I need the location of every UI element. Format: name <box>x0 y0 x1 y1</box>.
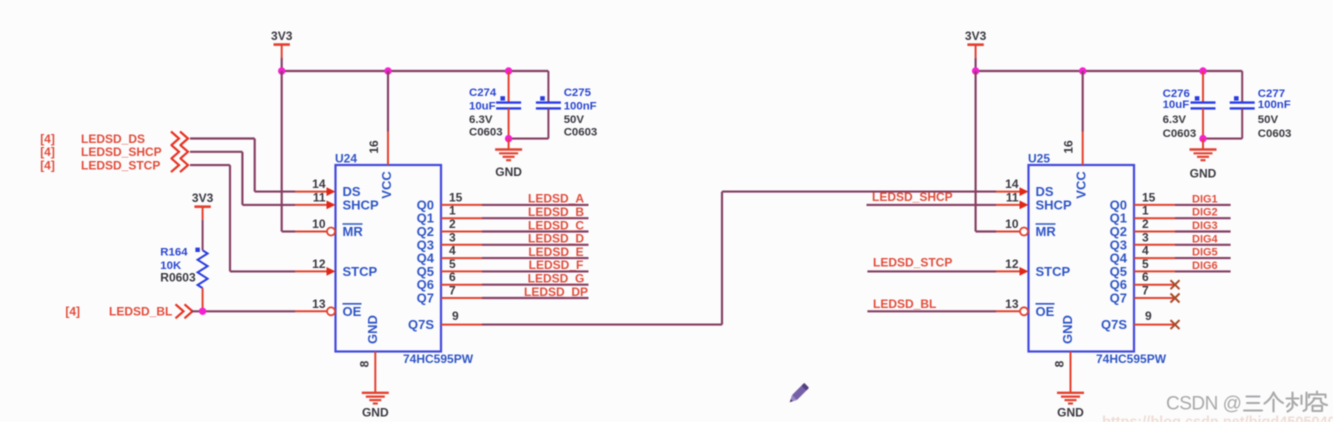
svg-text:C0603: C0603 <box>564 127 598 139</box>
pin 2 Q2 (U24) <box>417 217 482 239</box>
svg-text:MR: MR <box>343 224 364 239</box>
svg-text:6: 6 <box>1142 270 1149 284</box>
svg-text:C0603: C0603 <box>1258 128 1292 140</box>
designator U25 <box>1028 152 1050 166</box>
svg-text:LEDSD_SHCP: LEDSD_SHCP <box>81 145 162 159</box>
svg-text:GND: GND <box>1060 315 1075 344</box>
label C277 <box>1258 88 1285 100</box>
wire net DIG6 <box>1175 270 1231 272</box>
capacitor C274 10uF <box>496 71 521 139</box>
wire right cap bottoms join <box>1203 138 1242 140</box>
svg-text:16: 16 <box>367 140 381 154</box>
svg-text:LEDSD_DP: LEDSD_DP <box>524 285 588 299</box>
svg-text:GND: GND <box>365 315 380 344</box>
svg-text:1: 1 <box>449 204 456 218</box>
pin 16 VCC (U25) <box>1062 132 1089 199</box>
pin 6 Q6 (U24) <box>417 270 482 292</box>
label C276 <box>1163 88 1190 100</box>
svg-text:SHCP: SHCP <box>1036 197 1072 212</box>
wire net LEDSD_F <box>482 270 589 272</box>
svg-text:U24: U24 <box>335 152 357 166</box>
svg-text:C275: C275 <box>564 87 592 99</box>
value 10uF <box>469 100 496 112</box>
svg-text:12: 12 <box>312 257 326 271</box>
svg-text:SHCP: SHCP <box>343 197 379 212</box>
wire U24 Q7S to U25 DS <box>482 192 996 325</box>
svg-text:bttps://blog.csdn.net/bigd4505: bttps://blog.csdn.net/bigd45050402 <box>1102 415 1333 422</box>
junction at 3V3 left <box>278 67 285 74</box>
power symbol 3V3 (top left, feeds U24 rail) <box>271 29 293 58</box>
svg-text:LEDSD_C: LEDSD_C <box>528 218 584 232</box>
svg-text:LEDSD_STCP: LEDSD_STCP <box>81 158 160 172</box>
pin 7 Q7 (U24) <box>417 284 482 306</box>
svg-text:VCC: VCC <box>379 171 394 199</box>
junction at cap gnd node <box>505 135 512 142</box>
pin 9 Q7S (U24) <box>408 309 482 332</box>
pin 9 Q7S (U25) <box>1101 309 1175 332</box>
wire 3V3 to U25 pin 10 MR <box>976 71 996 232</box>
svg-text:8: 8 <box>1053 360 1067 367</box>
svg-text:12: 12 <box>1005 257 1019 271</box>
svg-text:[4]: [4] <box>40 132 55 146</box>
svg-text:7: 7 <box>449 284 456 298</box>
pin 10 MR inverted (U24) <box>295 217 363 239</box>
port [4] LEDSD_STCP <box>40 158 188 172</box>
svg-text:11: 11 <box>313 190 326 204</box>
pin 15 Q0 (U25) <box>1110 190 1175 212</box>
IC U24 74HC595PW body <box>336 165 442 352</box>
wire 3V3 stub to rail <box>281 58 283 71</box>
value 6.3V <box>469 114 493 126</box>
svg-text:CSDN @: CSDN @ <box>1166 394 1241 415</box>
pin 3 Q3 (U24) <box>417 230 482 252</box>
net label DIG3 <box>1192 220 1218 232</box>
pin 4 Q4 (U24) <box>417 244 482 266</box>
junction at U25 VCC branch <box>1079 67 1086 74</box>
svg-text:4: 4 <box>1142 244 1149 258</box>
svg-text:15: 15 <box>449 190 463 204</box>
svg-text:LEDSD_E: LEDSD_E <box>528 245 583 259</box>
svg-text:2: 2 <box>449 217 456 231</box>
no-connect X on U25 Q6 <box>1171 280 1180 289</box>
svg-text:4: 4 <box>449 244 456 258</box>
svg-text:OE: OE <box>1036 304 1055 319</box>
svg-text:Q7S: Q7S <box>408 317 434 332</box>
svg-text:Q7: Q7 <box>417 291 434 306</box>
svg-text:10: 10 <box>1005 217 1019 231</box>
label R164 <box>160 247 188 259</box>
value 50V (C277) <box>1258 114 1279 126</box>
value 6.3V (C276) <box>1163 114 1187 126</box>
svg-text:LEDSD_D: LEDSD_D <box>528 232 584 246</box>
pencil cursor icon <box>787 383 809 405</box>
svg-text:LEDSD_G: LEDSD_G <box>528 272 585 286</box>
svg-text:C0603: C0603 <box>1163 128 1197 140</box>
junction at right cap gnd node <box>1199 135 1206 142</box>
svg-text:C0603: C0603 <box>469 127 503 139</box>
net label DIG1 <box>1192 193 1218 205</box>
value 10uF (C276) <box>1163 99 1190 111</box>
svg-text:C274: C274 <box>469 87 497 99</box>
wire LEDSD_DS to U24 pin 14 <box>190 139 295 192</box>
pin 13 OE inverted (U25) <box>996 297 1055 319</box>
watermark CSDN @三个刺客 <box>1166 392 1327 415</box>
net label LEDSD_B <box>528 205 584 219</box>
svg-text:DIG5: DIG5 <box>1192 247 1218 259</box>
net label LEDSD_C <box>528 218 584 232</box>
junction at 3V3 right <box>972 67 979 74</box>
svg-text:[4]: [4] <box>65 305 80 319</box>
svg-text:VCC: VCC <box>1074 171 1089 199</box>
capacitor C275 100nF <box>536 71 561 139</box>
faint url watermark <box>1102 415 1333 422</box>
value C0603 (C276) <box>1163 128 1197 140</box>
svg-text:LEDSD_B: LEDSD_B <box>528 205 584 219</box>
wire net DIG5 <box>1175 257 1231 259</box>
svg-text:[4]: [4] <box>40 145 55 159</box>
svg-text:5: 5 <box>1142 257 1149 271</box>
wire net DIG3 <box>1175 230 1231 232</box>
pin 14 DS (U24) <box>295 177 361 199</box>
power symbol 3V3 (above R164) <box>192 191 214 220</box>
svg-text:74HC595PW: 74HC595PW <box>1096 352 1167 366</box>
svg-text:OE: OE <box>343 304 362 319</box>
no-connect X on U25 Q7 <box>1171 294 1180 303</box>
svg-text:5: 5 <box>449 257 456 271</box>
svg-text:GND: GND <box>362 406 389 420</box>
pin 7 Q7 (U25) <box>1110 284 1175 306</box>
svg-text:Q7S: Q7S <box>1101 317 1127 332</box>
svg-text:STCP: STCP <box>1036 264 1071 279</box>
value 100nF (C277) <box>1258 99 1291 111</box>
pin 5 Q5 (U25) <box>1110 257 1175 279</box>
svg-text:R164: R164 <box>160 247 188 259</box>
value 50V <box>564 114 585 126</box>
wire net LEDSD_G <box>482 284 589 286</box>
svg-text:3V3: 3V3 <box>192 191 214 205</box>
svg-text:Q7: Q7 <box>1110 291 1127 306</box>
svg-text:DIG2: DIG2 <box>1192 207 1218 219</box>
svg-text:100nF: 100nF <box>1258 99 1291 111</box>
value C0603 (C275) <box>564 127 598 139</box>
wire cap bottoms join <box>509 138 549 140</box>
svg-text:[4]: [4] <box>40 158 55 172</box>
pin 8 GND (U24) <box>357 315 380 393</box>
pin 2 Q2 (U25) <box>1110 217 1175 239</box>
pin 11 SHCP (U25) <box>996 190 1072 212</box>
pin 12 STCP (U24) <box>295 257 378 279</box>
port [4] LEDSD_BL <box>65 304 192 318</box>
net label LEDSD_STCP and wire to U25 pin 12 <box>867 256 996 272</box>
wire net LEDSD_D <box>482 244 589 246</box>
svg-text:100nF: 100nF <box>564 100 597 112</box>
wire LEDSD_BL to U24 pin 13 <box>192 310 296 312</box>
svg-text:16: 16 <box>1062 140 1076 154</box>
net label LEDSD_G <box>528 272 585 286</box>
value C0603 (C277) <box>1258 128 1292 140</box>
ground below C276/C277 <box>1190 139 1217 181</box>
net label LEDSD_F <box>529 258 584 272</box>
capacitor C277 100nF <box>1230 71 1255 139</box>
svg-text:DIG6: DIG6 <box>1192 260 1218 272</box>
port [4] LEDSD_SHCP <box>40 145 188 159</box>
wire LEDSD_SHCP to U24 pin 11 <box>190 152 295 205</box>
net label DIG5 <box>1192 247 1218 259</box>
svg-text:74HC595PW: 74HC595PW <box>403 352 474 366</box>
pin 16 VCC (U24) <box>367 132 394 199</box>
pin 11 SHCP (U24) <box>295 190 379 212</box>
wire net LEDSD_B <box>482 217 589 219</box>
svg-text:6.3V: 6.3V <box>469 114 493 126</box>
value 10K <box>160 260 182 272</box>
net label DIG4 <box>1192 233 1219 245</box>
wire net DIG4 <box>1175 244 1231 246</box>
svg-text:7: 7 <box>1142 284 1149 298</box>
svg-text:14: 14 <box>312 177 326 191</box>
pin 13 OE inverted (U24) <box>295 297 362 319</box>
svg-text:LEDSD_BL: LEDSD_BL <box>873 297 936 311</box>
svg-text:10uF: 10uF <box>1163 99 1190 111</box>
value 100nF <box>564 100 597 112</box>
svg-text:11: 11 <box>1006 190 1019 204</box>
pin 1 Q1 (U24) <box>417 204 482 226</box>
svg-text:6: 6 <box>449 270 456 284</box>
ground below C274/C275 <box>495 139 522 179</box>
net label LEDSD_D <box>528 232 584 246</box>
svg-text:3: 3 <box>449 230 456 244</box>
svg-text:LEDSD_F: LEDSD_F <box>529 258 584 272</box>
svg-text:8: 8 <box>357 360 371 367</box>
wire 3V3 to U24 pin 10 MR <box>282 71 295 232</box>
svg-text:15: 15 <box>1142 190 1156 204</box>
pin 1 Q1 (U25) <box>1110 204 1175 226</box>
power symbol 3V3 (top right, feeds U25 rail) <box>965 29 987 58</box>
svg-text:DIG1: DIG1 <box>1192 193 1218 205</box>
net label LEDSD_SHCP and wire to U25 pin 11 <box>867 190 997 205</box>
ground below U24 <box>362 393 389 420</box>
net label LEDSD_A <box>528 192 584 206</box>
wire 3V3 stub to right rail <box>975 58 977 71</box>
ground below U25 <box>1057 393 1084 420</box>
resistor R164 10K <box>195 220 207 312</box>
svg-text:50V: 50V <box>1258 114 1279 126</box>
wire LEDSD_STCP to U24 pin 12 <box>190 165 295 271</box>
svg-text:GND: GND <box>495 165 522 179</box>
port [4] LEDSD_DS <box>40 132 188 146</box>
svg-text:MR: MR <box>1036 224 1057 239</box>
svg-text:9: 9 <box>452 309 459 323</box>
wire net LEDSD_A <box>482 204 589 206</box>
wire rail to U25 VCC pin 16 <box>1082 71 1084 132</box>
svg-text:LEDSD_BL: LEDSD_BL <box>109 305 172 319</box>
pin 8 GND (U25) <box>1053 315 1076 393</box>
svg-text:3V3: 3V3 <box>271 29 293 43</box>
wire net LEDSD_DP <box>482 297 589 299</box>
svg-text:GND: GND <box>1057 406 1084 420</box>
svg-text:LEDSD_SHCP: LEDSD_SHCP <box>872 190 953 204</box>
value C0603 (C274) <box>469 127 503 139</box>
net label DIG2 <box>1192 207 1218 219</box>
net label LEDSD_DP <box>524 285 588 299</box>
svg-text:R0603: R0603 <box>160 271 196 285</box>
label C275 <box>564 87 592 99</box>
svg-text:LEDSD_DS: LEDSD_DS <box>81 132 145 146</box>
wire net DIG1 <box>1175 204 1231 206</box>
svg-text:6.3V: 6.3V <box>1163 114 1187 126</box>
svg-text:13: 13 <box>312 297 326 311</box>
value R0603 <box>160 271 196 285</box>
IC U25 74HC595PW body <box>1029 165 1135 352</box>
svg-text:STCP: STCP <box>343 264 378 279</box>
junction R164 / LEDSD_BL <box>199 308 206 315</box>
wire rail to U24 VCC pin 16 <box>387 71 389 132</box>
part value 74HC595PW (U24) <box>403 352 474 366</box>
svg-text:10: 10 <box>312 217 326 231</box>
svg-text:50V: 50V <box>564 114 585 126</box>
svg-text:10uF: 10uF <box>469 100 496 112</box>
wire 3V3 rail left (to C275 branch) <box>282 70 549 72</box>
junction at U24 VCC branch <box>384 67 391 74</box>
net label DIG6 <box>1192 260 1218 272</box>
svg-text:U25: U25 <box>1028 152 1050 166</box>
label C274 <box>469 87 497 99</box>
svg-text:3V3: 3V3 <box>965 29 987 43</box>
pin 5 Q5 (U24) <box>417 257 482 279</box>
svg-text:LEDSD_STCP: LEDSD_STCP <box>873 256 952 270</box>
svg-text:LEDSD_A: LEDSD_A <box>528 192 584 206</box>
svg-text:3: 3 <box>1142 230 1149 244</box>
wire net LEDSD_E <box>482 257 589 259</box>
net label LEDSD_BL and wire to U25 pin 13 <box>867 297 996 311</box>
svg-text:13: 13 <box>1005 297 1019 311</box>
svg-text:DIG4: DIG4 <box>1192 233 1219 245</box>
wire 3V3 rail right (to C277 branch) <box>976 70 1243 72</box>
svg-text:14: 14 <box>1005 177 1019 191</box>
svg-text:GND: GND <box>1190 167 1217 181</box>
pin 3 Q3 (U25) <box>1110 230 1175 252</box>
capacitor C276 10uF <box>1191 71 1216 139</box>
pin 15 Q0 (U24) <box>417 190 482 212</box>
wire net LEDSD_C <box>482 230 589 232</box>
no-connect X on U25 Q7S <box>1171 320 1180 329</box>
wire net DIG2 <box>1175 217 1231 219</box>
pin 4 Q4 (U25) <box>1110 244 1175 266</box>
svg-text:1: 1 <box>1142 204 1149 218</box>
designator U24 <box>335 152 357 166</box>
pin 14 DS (U25) <box>996 177 1054 199</box>
pin 12 STCP (U25) <box>996 257 1071 279</box>
svg-text:DIG3: DIG3 <box>1192 220 1218 232</box>
net label LEDSD_E <box>528 245 583 259</box>
svg-text:2: 2 <box>1142 217 1149 231</box>
svg-text:9: 9 <box>1145 309 1152 323</box>
junction at C274 branch <box>505 67 512 74</box>
part value 74HC595PW (U25) <box>1096 352 1167 366</box>
pin 6 Q6 (U25) <box>1110 270 1175 292</box>
pin 10 MR inverted (U25) <box>996 217 1056 239</box>
junction at C276 branch <box>1199 67 1206 74</box>
